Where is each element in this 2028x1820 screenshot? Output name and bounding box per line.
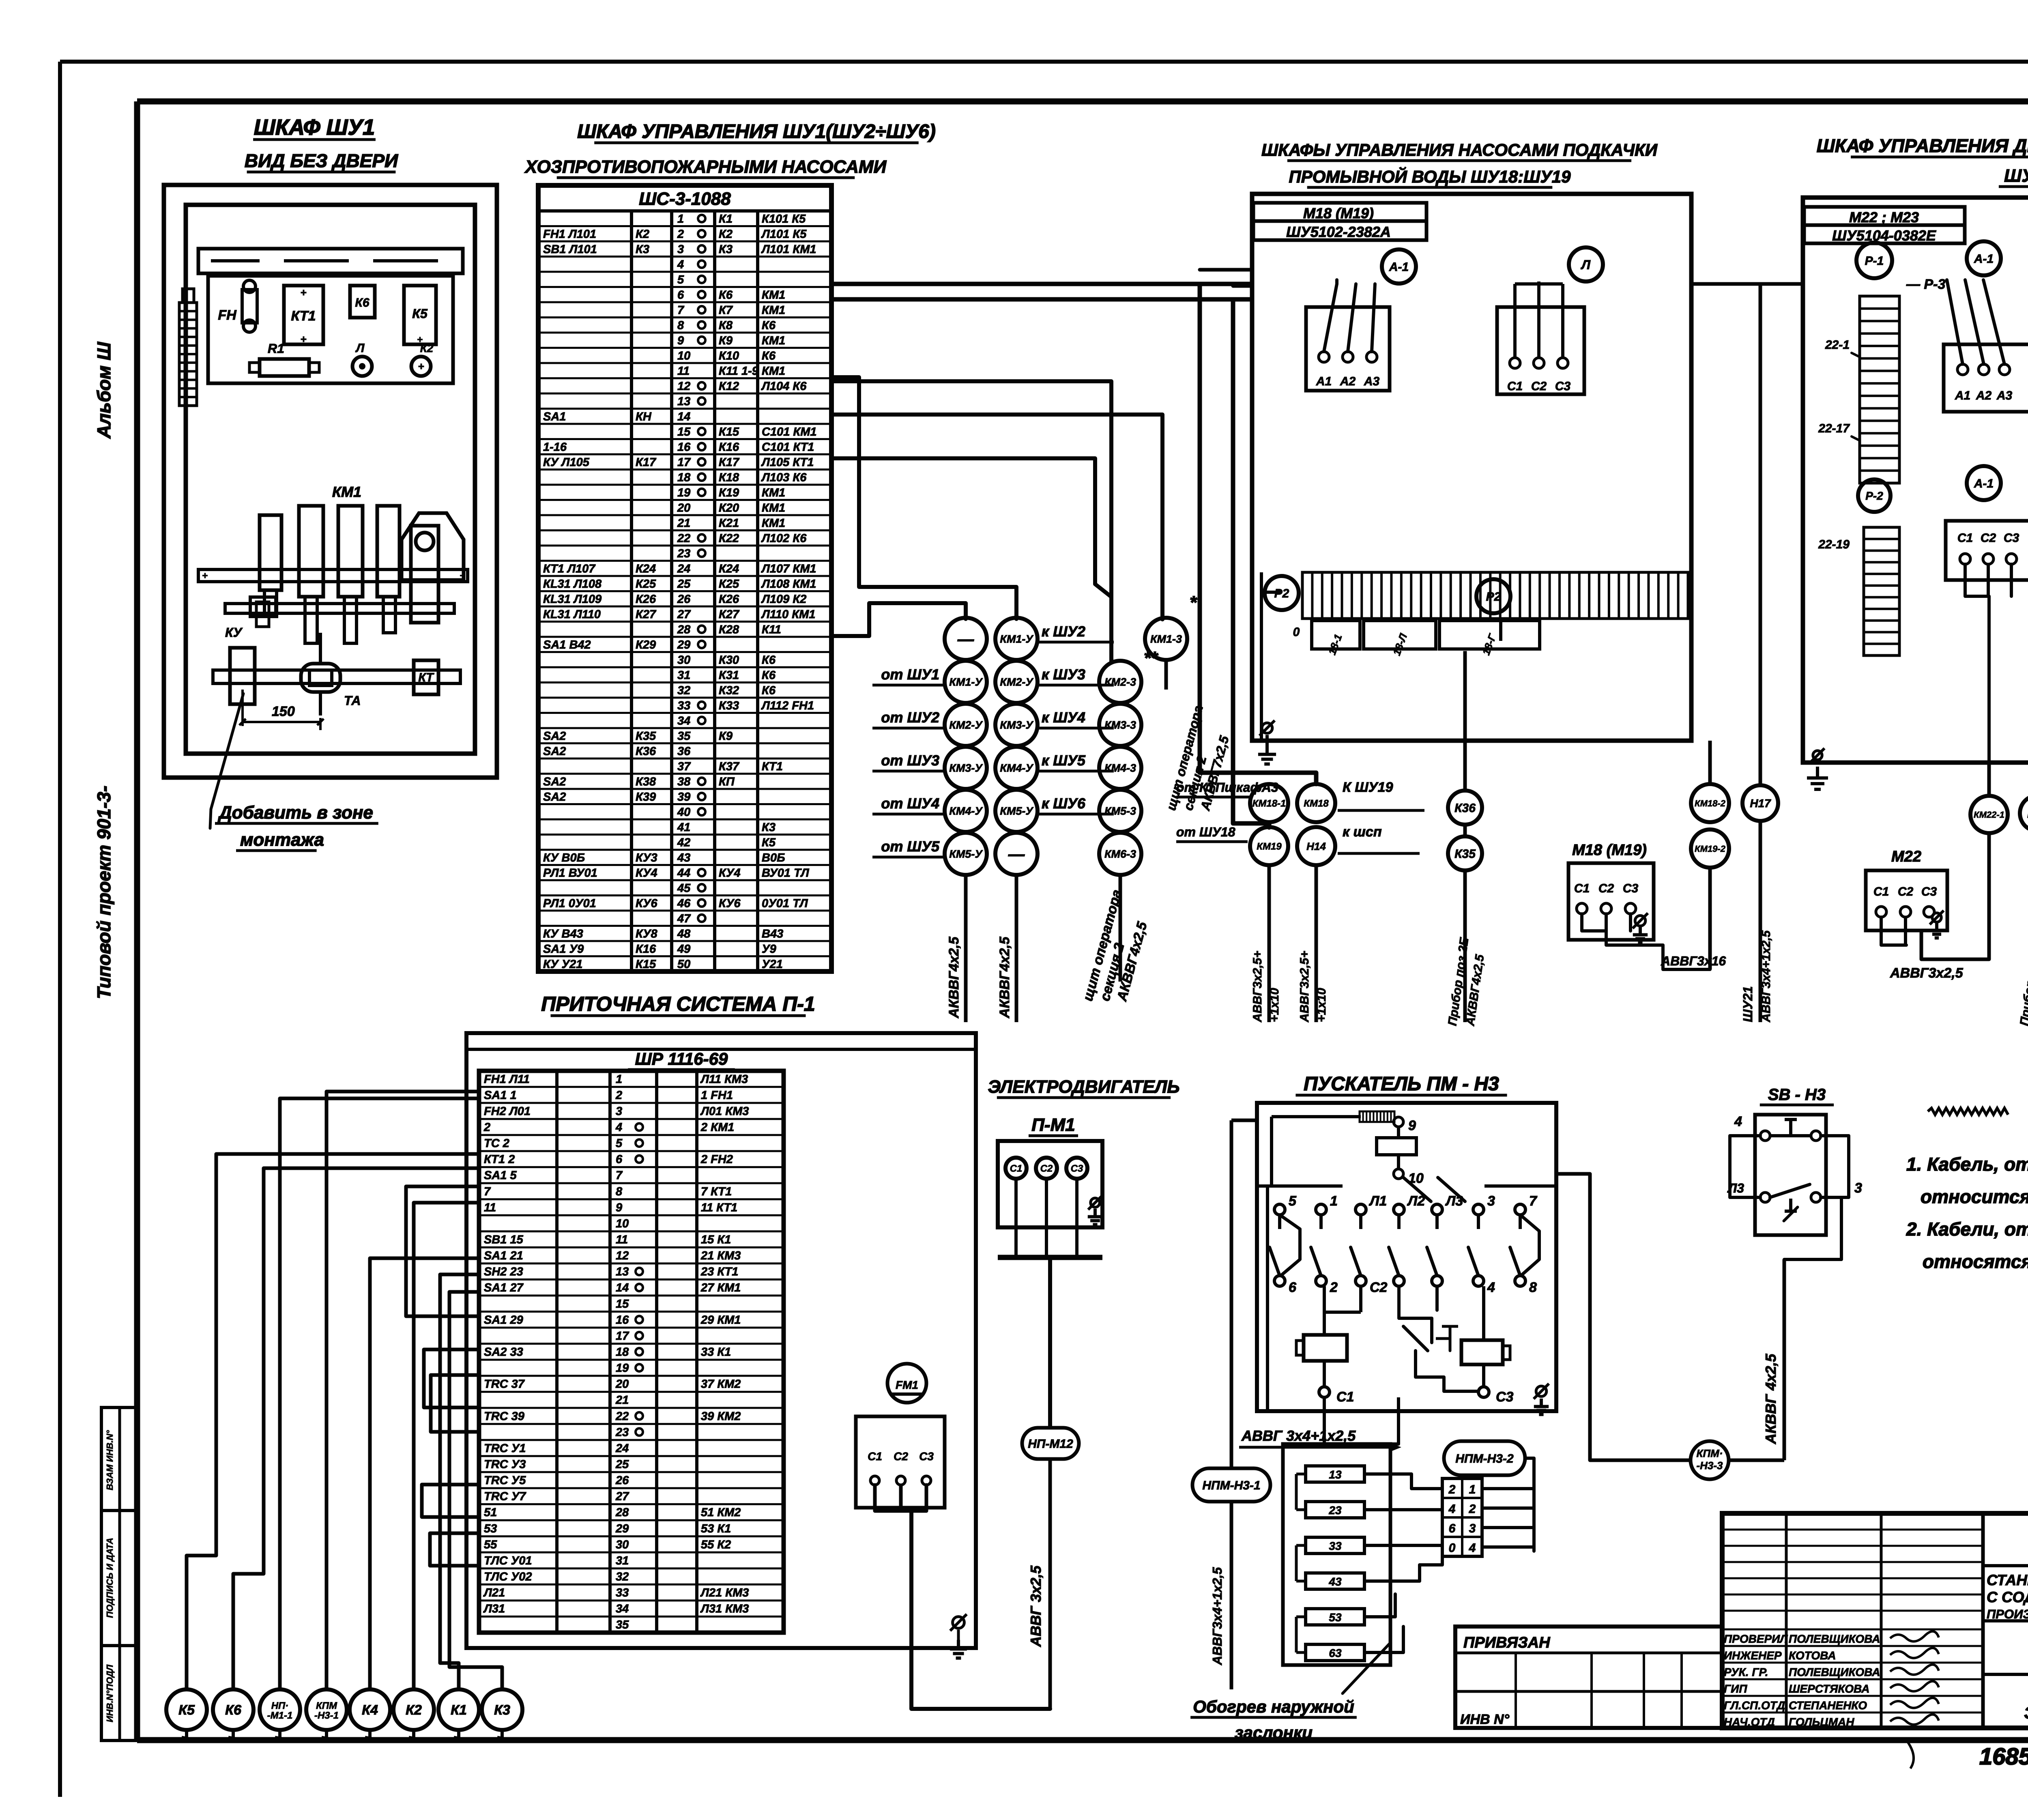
svg-text:В0Б: В0Б xyxy=(762,851,785,864)
svg-text:13: 13 xyxy=(616,1266,629,1279)
ground at ПМ-Н3 xyxy=(1534,1384,1549,1414)
FМ1 terminal box xyxy=(856,1416,945,1511)
svg-text:3: 3 xyxy=(1487,1193,1495,1209)
svg-text:У9: У9 xyxy=(762,943,776,956)
svg-text:ШР 1116-69: ШР 1116-69 xyxy=(635,1049,728,1068)
svg-text:41: 41 xyxy=(677,821,690,834)
svg-text:53: 53 xyxy=(1329,1611,1342,1624)
svg-text:К27: К27 xyxy=(719,608,740,621)
svg-text:К6: К6 xyxy=(719,288,733,301)
svg-text:4: 4 xyxy=(1448,1502,1456,1516)
svg-text:С2: С2 xyxy=(1370,1280,1388,1295)
svg-text:10: 10 xyxy=(677,349,690,362)
svg-text:У21: У21 xyxy=(762,958,783,971)
svg-text:—: — xyxy=(957,630,974,648)
svg-text:ШКАФЫ УПРАВЛЕНИЯ НАСОСАМИ ПОДК: ШКАФЫ УПРАВЛЕНИЯ НАСОСАМИ ПОДКАЧКИ xyxy=(1261,140,1658,159)
link 5-6 xyxy=(1280,1215,1300,1275)
svg-text:С1: С1 xyxy=(1010,1163,1023,1174)
svg-text:Л109 К2: Л109 К2 xyxy=(761,593,806,606)
wire to КПМ-Н3-3 xyxy=(1556,1174,1691,1460)
svg-text:АВВГ3х4+1х2,5: АВВГ3х4+1х2,5 xyxy=(1210,1567,1225,1665)
left margin stamp boxes xyxy=(101,1407,137,1740)
lamp Л xyxy=(352,342,372,376)
svg-text:28: 28 xyxy=(677,623,691,636)
svg-text:К19: К19 xyxy=(719,486,739,499)
svg-text:к шсп: к шсп xyxy=(1343,824,1382,840)
svg-text:4: 4 xyxy=(615,1121,622,1134)
svg-text:заслонки: заслонки xyxy=(1235,1723,1313,1742)
svg-text:FН2 Л01: FН2 Л01 xyxy=(484,1105,531,1118)
svg-text:КМ18-2: КМ18-2 xyxy=(1695,798,1726,808)
contactor КМ18-2 xyxy=(1691,784,1729,822)
cable АВВГ3х2,5 (М22) xyxy=(1890,965,1964,981)
svg-text:КМ1: КМ1 xyxy=(762,288,785,301)
svg-text:10: 10 xyxy=(616,1217,629,1230)
wires 10 to contacts xyxy=(1403,1178,1465,1201)
svg-text:К18: К18 xyxy=(719,471,739,484)
contactor chain column A (от ШУх) xyxy=(872,618,987,875)
svg-text:К5: К5 xyxy=(412,306,428,321)
svg-text:К2: К2 xyxy=(719,228,733,241)
cable АКВВГ4х2,5 of chain A xyxy=(946,875,966,1022)
title block object description xyxy=(1983,1572,2028,1621)
svg-text:4: 4 xyxy=(1487,1280,1495,1295)
svg-text:от ШУ3: от ШУ3 xyxy=(881,752,939,769)
svg-text:КМ1: КМ1 xyxy=(332,483,361,500)
svg-text:АВВГ3х2,5: АВВГ3х2,5 xyxy=(1890,965,1964,981)
wires А-1 to terminals xyxy=(1324,280,1375,352)
svg-text:С1: С1 xyxy=(1873,885,1889,898)
svg-text:34: 34 xyxy=(677,714,690,727)
svg-text:1: 1 xyxy=(1330,1193,1338,1209)
cam switch КУ small xyxy=(250,597,276,627)
svg-text:КУ У21: КУ У21 xyxy=(543,958,582,971)
svg-text:АВВГ3х2,5+: АВВГ3х2,5+ xyxy=(1251,951,1264,1023)
svg-text:1: 1 xyxy=(677,213,684,226)
svg-text:63: 63 xyxy=(1329,1647,1342,1659)
resistor R1 xyxy=(249,341,319,376)
svg-text:К11: К11 xyxy=(762,623,781,636)
coil left xyxy=(1296,1286,1361,1387)
svg-text:17: 17 xyxy=(677,456,691,469)
svg-text:SА1 27: SА1 27 xyxy=(484,1281,524,1294)
contactor КМ19-1 xyxy=(1250,827,1288,865)
svg-text:К1: К1 xyxy=(451,1702,467,1718)
svg-text:SА1 21: SА1 21 xyxy=(484,1249,523,1262)
svg-text:ТRС У3: ТRС У3 xyxy=(484,1458,526,1471)
svg-text:КМ22-1: КМ22-1 xyxy=(1974,810,2004,820)
svg-text:Типовой проект 901-3-: Типовой проект 901-3- xyxy=(93,786,114,999)
svg-text:относятся к шкафам шс2 ÷ шс6: относятся к шкафам шс2 ÷ шс6 xyxy=(1923,1251,2028,1272)
svg-text:29: 29 xyxy=(677,638,690,651)
svg-text:Н14: Н14 xyxy=(1306,840,1326,852)
wire КМ18-2 drop xyxy=(1708,741,1712,969)
auxiliary contact mechanism xyxy=(1399,1286,1478,1391)
svg-text:СТЕПАНЕНКО: СТЕПАНЕНКО xyxy=(1789,1699,1867,1712)
svg-text:КУ В43: КУ В43 xyxy=(543,927,583,940)
svg-text:КL31 Л110: КL31 Л110 xyxy=(543,608,601,621)
svg-text:16: 16 xyxy=(677,440,691,453)
svg-text:К6: К6 xyxy=(355,296,369,309)
svg-text:Л107 КМ1: Л107 КМ1 xyxy=(761,562,816,575)
svg-text:SВ1 Л101: SВ1 Л101 xyxy=(543,243,597,256)
ПМ-Н3 inner partition xyxy=(1257,1186,1556,1411)
cabinet ШУ1 inner door frame xyxy=(186,205,475,754)
wire С-bus to НПМ-Н3-2 xyxy=(1324,1397,1399,1444)
svg-text:13: 13 xyxy=(677,395,690,408)
svg-text:27: 27 xyxy=(615,1490,629,1503)
resistor bank strip xyxy=(1302,572,1688,619)
terminal strip 22 lower xyxy=(1818,527,1899,655)
svg-text:С2: С2 xyxy=(1531,380,1547,393)
svg-text:SА2: SА2 xyxy=(543,745,566,758)
svg-text:К7: К7 xyxy=(719,304,733,317)
SВ-Н3 terminal 4 xyxy=(1730,1114,1760,1197)
svg-text:КМ1-3: КМ1-3 xyxy=(1150,633,1182,645)
wire bus to КМ1-3 column xyxy=(831,415,1162,619)
wires А-1 fan (ШУ22) xyxy=(1947,280,2004,364)
heater resistor box xyxy=(1283,1444,1390,1665)
svg-text:53: 53 xyxy=(484,1522,497,1535)
svg-text:ТЛС У01: ТЛС У01 xyxy=(484,1554,532,1567)
svg-text:КТ1: КТ1 xyxy=(291,308,316,324)
svg-text:ТС 2: ТС 2 xyxy=(484,1137,509,1150)
svg-text:к ШУ3: к ШУ3 xyxy=(1042,666,1085,683)
svg-text:31: 31 xyxy=(677,669,690,682)
svg-text:46: 46 xyxy=(677,897,691,910)
svg-text:К2: К2 xyxy=(636,228,649,241)
svg-text:ПРИВЯЗАН: ПРИВЯЗАН xyxy=(1463,1634,1551,1651)
svg-text:К30: К30 xyxy=(719,653,739,666)
contactor КМ1 pole 3 xyxy=(338,506,363,643)
fuse FH xyxy=(218,280,257,332)
П-М1 bus bar xyxy=(998,1255,1102,1260)
svg-text:А2: А2 xyxy=(1976,389,1992,402)
svg-text:М18 (М19): М18 (М19) xyxy=(1572,842,1647,859)
demolish hatch mark xyxy=(1360,1111,1394,1122)
svg-text:34: 34 xyxy=(616,1603,629,1616)
svg-text:КМ1-У: КМ1-У xyxy=(949,676,983,688)
terminal strip 22 upper xyxy=(1818,277,1945,483)
svg-text:М22 ; М23: М22 ; М23 xyxy=(1849,209,1919,226)
svg-text:Л101 К5: Л101 К5 xyxy=(761,228,807,241)
svg-text:К3: К3 xyxy=(494,1702,510,1718)
current transformer ТА xyxy=(301,633,361,716)
cable label АВВГ 3х4+1х2,5 xyxy=(1239,1427,1401,1452)
time relay КТ1 xyxy=(284,286,323,345)
svg-text:НПМ-Н3-2: НПМ-Н3-2 xyxy=(1455,1452,1514,1465)
cable Прибор поз2Е (К31) xyxy=(2017,831,2028,1027)
svg-text:К35: К35 xyxy=(636,730,656,743)
marker НПМ-Н3-2 xyxy=(1444,1441,1525,1475)
svg-text:КМ19-2: КМ19-2 xyxy=(1695,844,1726,854)
svg-text:АКВВГ4х2,5: АКВВГ4х2,5 xyxy=(997,936,1012,1019)
svg-text:Л104 К6: Л104 К6 xyxy=(761,380,807,393)
note 1 line 1 xyxy=(1906,1154,2028,1175)
svg-text:53 К1: 53 К1 xyxy=(701,1522,731,1535)
svg-text:КМ18-1: КМ18-1 xyxy=(1252,798,1286,809)
cable АВВГ3х2,5 2 xyxy=(1298,865,1328,1023)
svg-text:Л21: Л21 xyxy=(483,1586,505,1599)
svg-text:1-16: 1-16 xyxy=(543,440,567,453)
svg-text:Л112 FН1: Л112 FН1 xyxy=(761,699,814,712)
svg-text:К28: К28 xyxy=(719,623,739,636)
svg-text:FН1 Л101: FН1 Л101 xyxy=(543,228,596,241)
wire П-М1 to НП-М12 xyxy=(1048,1257,1052,1428)
svg-text:А3: А3 xyxy=(1364,375,1380,388)
ground phi at FМ1 drop xyxy=(950,1614,967,1658)
svg-text:К15: К15 xyxy=(636,958,656,971)
svg-text:КМ5-У: КМ5-У xyxy=(1000,805,1033,817)
svg-text:Л11 КМ3: Л11 КМ3 xyxy=(700,1073,748,1086)
svg-text:22: 22 xyxy=(677,532,690,545)
svg-text:0: 0 xyxy=(1449,1541,1456,1555)
note 1 line 2 xyxy=(1921,1186,2028,1207)
svg-text:Р-2: Р-2 xyxy=(1865,490,1883,502)
svg-text:К16: К16 xyxy=(636,943,656,956)
svg-text:К37: К37 xyxy=(719,760,740,773)
svg-text:6: 6 xyxy=(616,1153,623,1166)
svg-text:к ШУ4: к ШУ4 xyxy=(1042,709,1085,726)
svg-text:ГЛ.СП.ОТД: ГЛ.СП.ОТД xyxy=(1724,1699,1785,1712)
svg-text:*: * xyxy=(1190,593,1197,612)
cable АВВГ 3х2,5 xyxy=(1027,1459,1050,1708)
svg-text:3: 3 xyxy=(616,1105,622,1118)
terminal С3 xyxy=(1478,1387,1514,1405)
svg-text:КМ18: КМ18 xyxy=(1304,798,1329,809)
svg-text:18-Л: 18-Л xyxy=(1390,632,1410,657)
svg-text:7: 7 xyxy=(677,304,685,317)
svg-text:РУК. ГР.: РУК. ГР. xyxy=(1724,1666,1768,1678)
svg-text:Л31: Л31 xyxy=(483,1603,505,1616)
svg-text:КН: КН xyxy=(636,410,652,423)
svg-text:FН: FН xyxy=(218,307,237,323)
ammeter А-1 (ШУ22) xyxy=(1967,241,2001,275)
svg-text:от ШУ5: от ШУ5 xyxy=(881,838,940,855)
leader добавить в зоне монтажа xyxy=(210,694,378,851)
svg-text:3: 3 xyxy=(1854,1180,1862,1196)
wires resistors to table xyxy=(1364,1474,1442,1652)
svg-text:КУ В0Б: КУ В0Б xyxy=(543,851,585,864)
svg-text:SВ1 15: SВ1 15 xyxy=(484,1233,524,1246)
svg-text:6: 6 xyxy=(1289,1280,1297,1295)
wire left bus ПМ-Н3 xyxy=(1231,1120,1257,1468)
svg-text:20: 20 xyxy=(615,1378,629,1391)
svg-text:23: 23 xyxy=(1328,1504,1342,1517)
svg-text:ШС-3-1088: ШС-3-1088 xyxy=(639,189,731,209)
svg-text:ГОЛЬЦМАН: ГОЛЬЦМАН xyxy=(1789,1716,1854,1728)
svg-text:32: 32 xyxy=(616,1571,629,1584)
svg-text:К21: К21 xyxy=(719,517,739,530)
svg-text:11: 11 xyxy=(484,1201,496,1214)
wire drop to chain A xyxy=(831,603,966,636)
terminal 10 xyxy=(1394,1155,1424,1186)
svg-text:SВ - Н3: SВ - Н3 xyxy=(1768,1086,1826,1104)
motor М22 box xyxy=(1866,848,1947,945)
svg-text:КМ1-У: КМ1-У xyxy=(1000,633,1033,645)
svg-text:К26: К26 xyxy=(636,593,656,606)
svg-text:9: 9 xyxy=(616,1201,622,1214)
svg-text:АКВВГ 4х2,5: АКВВГ 4х2,5 xyxy=(1762,1354,1779,1444)
svg-text:47: 47 xyxy=(677,912,691,925)
svg-text:К ШУ19: К ШУ19 xyxy=(1343,780,1393,795)
ground at М18 xyxy=(1633,913,1648,943)
svg-text:7: 7 xyxy=(484,1185,491,1198)
svg-text:13: 13 xyxy=(1329,1468,1342,1481)
contactor КМ18-1 xyxy=(1250,784,1288,822)
svg-text:SА1 В42: SА1 В42 xyxy=(543,638,591,651)
terminal box С1С2С3 (right) xyxy=(1497,307,1584,394)
svg-text:К6: К6 xyxy=(762,349,776,362)
svg-text:22-19: 22-19 xyxy=(1818,538,1850,551)
svg-text:55 К2: 55 К2 xyxy=(701,1538,731,1551)
motor box П-М1 xyxy=(998,1141,1102,1257)
svg-text:КL31 Л108: КL31 Л108 xyxy=(543,578,602,591)
svg-text:SА2: SА2 xyxy=(543,730,566,743)
svg-text:К6: К6 xyxy=(762,653,776,666)
svg-text:К17: К17 xyxy=(636,456,657,469)
svg-text:С101 КМ1: С101 КМ1 xyxy=(762,425,817,438)
svg-text:SА1 1: SА1 1 xyxy=(484,1089,517,1102)
svg-text:ПРОИЗВОДИТЕЛЬНОСТЬЮ 2Е ТЫС.М3/: ПРОИЗВОДИТЕЛЬНОСТЬЮ 2Е ТЫС.М3/СУТКИ С ВИ… xyxy=(1987,1607,2028,1621)
wire FМ1 drop xyxy=(911,1511,1050,1709)
svg-text:С3: С3 xyxy=(1623,882,1639,895)
svg-text:8: 8 xyxy=(1529,1280,1537,1295)
svg-text:К1: К1 xyxy=(719,213,733,226)
title Шкафы управления насосами подкачки xyxy=(1261,140,1658,161)
svg-text:4: 4 xyxy=(1734,1114,1742,1129)
label КМ1 xyxy=(332,483,361,500)
svg-text:49: 49 xyxy=(677,943,690,956)
svg-text:21 КМ3: 21 КМ3 xyxy=(700,1249,741,1262)
contactor КМ1 pole 1 xyxy=(260,515,281,617)
svg-text:25: 25 xyxy=(615,1458,629,1471)
cable АВВГ3х2,5 1 xyxy=(1251,865,1281,1023)
terminal table jumper circles xyxy=(698,215,705,922)
ammeter А-1 lower (ШУ22) xyxy=(1967,466,2001,500)
svg-text:39: 39 xyxy=(677,791,690,804)
title block схема подключения xyxy=(2024,1682,2028,1722)
wires С-box left loop xyxy=(1965,564,2011,763)
svg-text:КМ1: КМ1 xyxy=(762,334,785,347)
resistor element xyxy=(1377,1127,1416,1155)
svg-text:КМ3-У: КМ3-У xyxy=(1000,719,1033,731)
svg-text:16: 16 xyxy=(616,1313,629,1326)
SВ-Н3 terminal 3 xyxy=(1784,1136,1862,1259)
svg-text:Л102 К6: Л102 К6 xyxy=(761,532,807,545)
svg-text:2 FН2: 2 FН2 xyxy=(700,1153,733,1166)
svg-text:КУ4: КУ4 xyxy=(719,866,741,879)
legend демонтировать xyxy=(1928,1103,2028,1125)
svg-text:КМ2-У: КМ2-У xyxy=(949,719,983,731)
svg-text:39 КМ2: 39 КМ2 xyxy=(701,1410,741,1423)
svg-text:15: 15 xyxy=(616,1298,629,1311)
svg-text:ИНВ.N°ПОДЛ: ИНВ.N°ПОДЛ xyxy=(105,1664,115,1722)
svg-text:3: 3 xyxy=(677,243,684,256)
note 2 line 1 xyxy=(1906,1218,2028,1240)
svg-text:+: + xyxy=(418,360,424,372)
svg-text:К6: К6 xyxy=(225,1702,242,1718)
svg-text:РЛ1 0У01: РЛ1 0У01 xyxy=(543,897,596,910)
svg-text:С2: С2 xyxy=(1598,882,1614,895)
ШУ18 internal wiring xyxy=(1200,270,1501,836)
svg-text:КУ Л105: КУ Л105 xyxy=(543,456,590,469)
svg-text:от ШУ1: от ШУ1 xyxy=(881,666,939,683)
svg-text:23: 23 xyxy=(615,1426,629,1439)
resistor bank taps xyxy=(1312,621,1540,657)
svg-text:8: 8 xyxy=(616,1185,623,1198)
svg-text:ПОЛЕВЩИКОВА: ПОЛЕВЩИКОВА xyxy=(1789,1633,1880,1645)
svg-text:12: 12 xyxy=(677,380,690,393)
svg-text:28: 28 xyxy=(615,1506,629,1519)
svg-text:ХОЗПРОТИВОПОЖАРНЫМИ НАСОСАМИ: ХОЗПРОТИВОПОЖАРНЫМИ НАСОСАМИ xyxy=(524,157,887,177)
svg-text:КМ1: КМ1 xyxy=(762,486,785,499)
П-1 terminal table grid xyxy=(479,1071,784,1633)
label от ШУ18 xyxy=(1176,825,1248,842)
terminal table ШС-3-1088 entries xyxy=(543,213,817,971)
svg-text:Л108 КМ1: Л108 КМ1 xyxy=(761,578,816,591)
lamp Л circle xyxy=(1569,247,1603,281)
note 2 line 2 xyxy=(1923,1251,2028,1272)
relay К36 xyxy=(1448,791,1482,825)
svg-text:Л: Л xyxy=(355,342,365,355)
svg-text:К4: К4 xyxy=(362,1702,378,1718)
svg-text:К6: К6 xyxy=(762,319,776,332)
svg-text:ТЛС У02: ТЛС У02 xyxy=(484,1571,532,1584)
svg-text:КМ5-3: КМ5-3 xyxy=(1104,805,1136,817)
svg-text:Л103 К6: Л103 К6 xyxy=(761,471,807,484)
svg-text:33: 33 xyxy=(677,699,690,712)
svg-text:R1: R1 xyxy=(268,341,284,356)
svg-text:33: 33 xyxy=(1329,1540,1342,1552)
svg-text:ГИП: ГИП xyxy=(1724,1682,1747,1695)
svg-text:23 КТ1: 23 КТ1 xyxy=(700,1266,738,1279)
svg-text:43: 43 xyxy=(1328,1575,1342,1588)
svg-text:К10: К10 xyxy=(719,349,739,362)
svg-text:ПУСКАТЕЛЬ ПМ - Н3: ПУСКАТЕЛЬ ПМ - Н3 xyxy=(1304,1073,1499,1095)
svg-text:КУ3: КУ3 xyxy=(636,851,657,864)
svg-text:Л1: Л1 xyxy=(1368,1193,1387,1209)
svg-text:18-1: 18-1 xyxy=(1326,632,1345,656)
cable АВВГ3х4+1х2,5 drop xyxy=(1210,1502,1231,1689)
svg-text:Прибор поз.2Е: Прибор поз.2Е xyxy=(2017,937,2028,1027)
svg-text:Р2: Р2 xyxy=(1486,590,1501,604)
svg-text:К39: К39 xyxy=(636,791,656,804)
svg-text:КМ1: КМ1 xyxy=(762,517,785,530)
svg-text:П-М1: П-М1 xyxy=(1031,1115,1075,1135)
ground at ШУ18 bottom xyxy=(1258,720,1276,764)
svg-text:КУ: КУ xyxy=(225,625,243,640)
relay К6 xyxy=(350,286,375,318)
cabinet ШУ1 outer body xyxy=(164,185,497,778)
svg-text:— Р-3: — Р-3 xyxy=(1906,277,1945,292)
svg-text:С2: С2 xyxy=(1981,531,1996,545)
svg-text:8: 8 xyxy=(677,319,684,332)
contactor КМ1 pole 2 xyxy=(299,506,323,643)
SВ-Н3 lower contact xyxy=(1760,1184,1821,1221)
svg-text:КУ6: КУ6 xyxy=(636,897,657,910)
svg-text:К20: К20 xyxy=(719,501,739,514)
handwritten 16855-03 15 xyxy=(1979,1743,2028,1770)
switch КУ box xyxy=(230,648,255,704)
svg-text:КП: КП xyxy=(719,775,735,788)
svg-text:9: 9 xyxy=(1408,1118,1416,1133)
svg-text:+: + xyxy=(460,570,465,581)
cabinet apparatus panel xyxy=(208,276,453,383)
label обогрев наружной заслонки xyxy=(1190,1643,1390,1742)
svg-text:14: 14 xyxy=(616,1281,629,1294)
svg-text:7: 7 xyxy=(616,1169,623,1182)
